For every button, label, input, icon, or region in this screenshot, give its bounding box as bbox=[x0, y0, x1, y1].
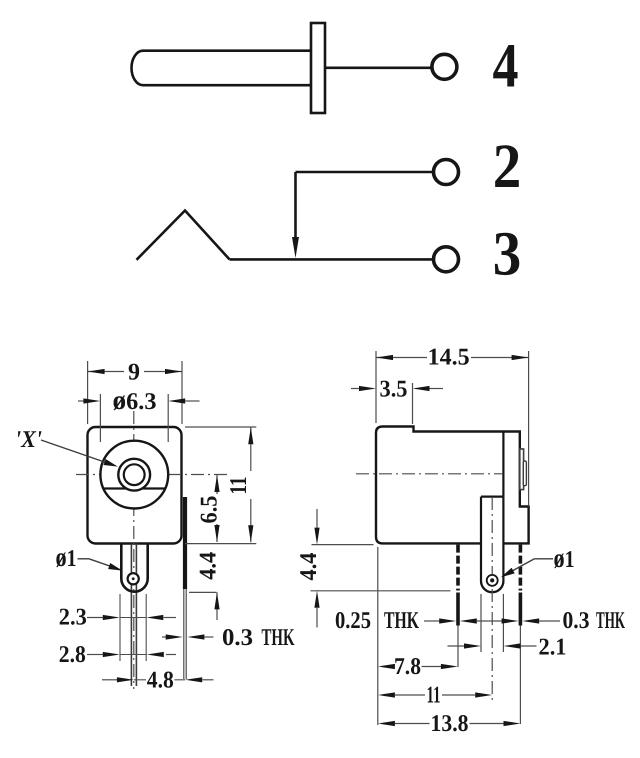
svg-text:6.5: 6.5 bbox=[197, 496, 223, 524]
svg-text:2.1: 2.1 bbox=[539, 635, 567, 661]
svg-text:THK: THK bbox=[596, 608, 625, 634]
svg-text:THK: THK bbox=[384, 608, 419, 634]
svg-text:14.5: 14.5 bbox=[428, 345, 470, 371]
rear tab inner detail bbox=[523, 461, 526, 486]
svg-text:11: 11 bbox=[226, 477, 252, 495]
svg-text:2: 2 bbox=[493, 131, 522, 201]
front lug pin side view (solid lower) bbox=[456, 593, 460, 626]
leader line o1 front bbox=[78, 558, 90, 560]
svg-text:3: 3 bbox=[493, 219, 522, 289]
wire pin 3 bbox=[230, 258, 433, 261]
body left extension line bbox=[377, 547, 379, 725]
side lug pin side view (solid lower) bbox=[519, 593, 523, 626]
terminal circle pin 2 bbox=[434, 160, 459, 185]
front lug pin side view (dashed upper) bbox=[456, 545, 460, 591]
dimension 2.1 bbox=[448, 645, 465, 647]
svg-text:4.4: 4.4 bbox=[296, 553, 322, 581]
lug bottom extension line bbox=[189, 591, 217, 593]
dimension 11 (side view) bbox=[378, 692, 395, 697]
dimension 4.8 bbox=[102, 679, 118, 681]
svg-text:4.8: 4.8 bbox=[147, 668, 174, 694]
hole o1 front view bbox=[128, 573, 139, 584]
center pin holder column bbox=[481, 497, 503, 592]
svg-text:0.25: 0.25 bbox=[335, 608, 371, 634]
svg-text:7.8: 7.8 bbox=[394, 654, 421, 680]
column extension lines bbox=[480, 594, 482, 652]
dimension 7.8 bbox=[378, 664, 395, 669]
center pin leads front view bbox=[130, 544, 132, 687]
chord flat in barrel opening bbox=[104, 487, 165, 489]
svg-text:4: 4 bbox=[493, 31, 519, 101]
svg-text:'X': 'X' bbox=[15, 427, 42, 453]
svg-text:0.3: 0.3 bbox=[222, 625, 253, 651]
dimension 14.5 bbox=[376, 357, 427, 359]
front lug pin extension bbox=[457, 626, 459, 668]
leader line X bbox=[41, 440, 115, 466]
column step line bbox=[481, 496, 503, 498]
center pin circle bbox=[124, 464, 145, 485]
side lug pin extension bbox=[519, 626, 521, 725]
U-pin edge extension lines bbox=[119, 594, 121, 661]
side lug strip edge-on bbox=[183, 497, 187, 589]
dimension 4.4 (side view) extension lines bbox=[312, 544, 374, 546]
rear tab bbox=[520, 449, 524, 490]
dimension 3.5 bbox=[351, 388, 360, 390]
barrel opening circle o6.3 bbox=[100, 441, 168, 509]
dimension 3.5 extension line bbox=[412, 383, 414, 424]
dimension 9 bbox=[88, 371, 124, 373]
dimension 13.8 bbox=[378, 721, 395, 726]
spring contact chevron pin 3 bbox=[137, 211, 230, 260]
dimension 6.5 bbox=[216, 475, 218, 494]
dimension 11 (front view) bbox=[250, 427, 252, 471]
terminal circle pin 4 bbox=[432, 54, 457, 79]
svg-text:9: 9 bbox=[128, 360, 140, 386]
horizontal centerline side view bbox=[356, 473, 503, 475]
svg-text:3.5: 3.5 bbox=[380, 377, 408, 403]
svg-text:4.4: 4.4 bbox=[196, 552, 222, 580]
front lug pin with hole bbox=[121, 544, 147, 592]
svg-text:0.3: 0.3 bbox=[563, 608, 590, 634]
svg-text:THK: THK bbox=[262, 625, 295, 651]
arrowhead to pin 3 wire bbox=[292, 237, 299, 258]
body top extension line bbox=[185, 426, 256, 428]
svg-text:13.8: 13.8 bbox=[431, 711, 469, 737]
svg-text:2.3: 2.3 bbox=[59, 605, 87, 631]
svg-text:11: 11 bbox=[427, 683, 441, 709]
leader line o1 side bbox=[534, 558, 553, 560]
svg-text:ø1: ø1 bbox=[56, 542, 77, 572]
hole o1 side view bbox=[487, 575, 498, 586]
internal boundary line bbox=[502, 432, 504, 497]
vertical centerline side view bbox=[491, 497, 493, 702]
dimension o6.3 extension lines bbox=[99, 394, 101, 442]
terminal circle pin 3 bbox=[434, 247, 459, 272]
dimension 14.5 extension lines bbox=[375, 351, 377, 423]
dimension 4.4 (side view) bbox=[316, 509, 318, 528]
svg-text:2.8: 2.8 bbox=[59, 642, 86, 668]
wire pin 4 bbox=[325, 67, 431, 70]
wire pin 2 bbox=[296, 171, 433, 174]
svg-text:ø6.3: ø6.3 bbox=[113, 385, 157, 415]
dimension o6.3 bbox=[78, 400, 84, 402]
wire pin 2 vertical drop bbox=[294, 172, 297, 238]
center pin barrel symbol (schematic) bbox=[132, 51, 311, 85]
metal ring circle bbox=[118, 459, 150, 491]
jack body front view bbox=[88, 427, 182, 544]
vertical centerline front view bbox=[133, 411, 135, 689]
hole center dot side view bbox=[490, 578, 494, 582]
jack body side view bbox=[376, 427, 529, 544]
hole center dot front view bbox=[132, 577, 135, 580]
dimension 0.3 THK (front view) bbox=[162, 636, 167, 638]
crossbar of jack symbol bbox=[311, 23, 325, 113]
column bottom arc bbox=[481, 581, 503, 592]
dimension 4.4 (front view) bbox=[216, 592, 218, 620]
svg-text:ø1: ø1 bbox=[554, 543, 575, 573]
horizontal centerline front view bbox=[76, 474, 227, 476]
side lug strip lower part bbox=[183, 589, 185, 679]
side lug pin side view (dashed upper) bbox=[519, 545, 523, 591]
dimension 9 extension lines bbox=[87, 361, 89, 424]
body bottom extension line bbox=[185, 543, 256, 545]
dimension 0.3 THK (side view) bbox=[502, 618, 519, 623]
